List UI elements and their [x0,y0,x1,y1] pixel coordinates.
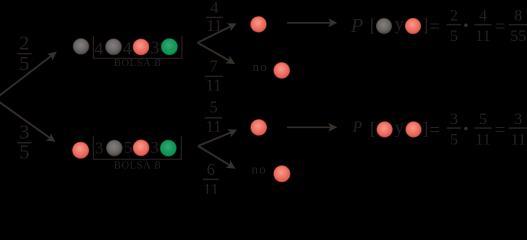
wire: top subtree branch to no-red outcome [198,43,231,61]
svg-text:11: 11 [203,180,219,194]
wire: top subtree branch to red outcome [198,26,232,43]
svg-text:5: 5 [450,131,458,148]
fraction 7/11 (top subtree) [205,57,223,95]
svg-text:7: 7 [209,57,217,76]
svg-text:y: y [395,14,404,34]
svg-text:4: 4 [94,38,103,58]
svg-text:=: = [495,16,506,37]
red ball in top formula [405,18,421,34]
bracket box bag B (bottom) [93,136,181,159]
svg-text:11: 11 [511,131,526,148]
multiplication dot (bottom formula) [464,127,467,130]
svg-text:8: 8 [514,7,522,24]
svg-text:3: 3 [150,138,158,157]
svg-text:6: 6 [207,160,215,179]
svg-text:11: 11 [206,117,222,136]
svg-text:[: [ [370,15,376,35]
svg-text:55: 55 [510,28,526,45]
svg-text:BOLSA B: BOLSA B [114,161,161,172]
svg-text:5: 5 [19,142,29,164]
svg-text:=: = [429,16,440,37]
red ball in bottom bag [133,140,149,156]
red ball after no (top subtree) [274,62,290,78]
fraction 4/11 (top subtree) [206,0,223,35]
formula P[red y red] = 3/5 . 5/11 = 3/11 [352,118,376,138]
svg-text:5: 5 [19,53,29,75]
bracket box bag B (top) [93,36,181,58]
red ball after no (bottom subtree) [274,166,290,182]
wire: bottom horizontal arrow to formula [287,126,331,128]
green ball in bottom bag [160,140,176,156]
svg-text:11: 11 [206,76,222,95]
svg-text:BOLSA B: BOLSA B [114,58,161,69]
fraction 6/11 (bottom subtree) [203,160,219,199]
svg-text:11: 11 [475,28,490,45]
formula P[gray y red] = 2/5 . 4/11 = 8/55 [350,15,376,37]
red ball 2 in bottom formula [406,122,422,138]
svg-text:]: ] [423,118,429,138]
gray ball drawn first (top) [73,38,89,54]
red ball drawn first (bottom) [72,142,88,158]
svg-text:4: 4 [123,38,132,58]
green ball in top bag [161,39,177,55]
svg-text:=: = [429,120,440,141]
svg-text:4: 4 [479,7,487,24]
svg-text:2: 2 [450,7,458,24]
svg-text:y: y [395,117,404,137]
wire: bottom subtree branch to red outcome [198,132,232,146]
fraction 3/5 (root bottom branch) [17,122,31,164]
svg-text:3: 3 [19,122,29,144]
svg-text:5: 5 [209,98,217,117]
wire: root branch up to bag with gray ball [0,55,52,99]
svg-text:5: 5 [479,111,487,128]
svg-text:=: = [495,120,506,141]
svg-text:11: 11 [206,16,222,35]
svg-text:2: 2 [19,33,29,55]
fraction 5/11 (bottom subtree) [205,98,223,136]
svg-text:3: 3 [150,38,159,58]
svg-text:5: 5 [124,138,132,157]
svg-text:[: [ [370,118,376,138]
svg-text:3: 3 [450,111,458,128]
svg-text:]: ] [423,15,429,35]
multiplication dot (top formula) [464,24,467,27]
fraction 2/5 (root top branch) [17,33,31,76]
svg-text:3: 3 [95,138,103,157]
wire: root branch down to bag with red ball [0,99,51,138]
gray ball in top formula [376,18,392,34]
red ball 1 in bottom formula [377,122,393,138]
wire: bottom subtree branch to no-red outcome [198,146,230,166]
svg-text:no: no [253,59,268,74]
svg-text:11: 11 [475,131,490,148]
wire: top horizontal arrow to formula [287,22,331,24]
gray ball in top bag [105,39,121,55]
svg-text:5: 5 [450,28,458,45]
red ball outcome (top subtree) [251,16,267,32]
svg-text:P: P [350,15,363,37]
red ball outcome (bottom subtree) [251,119,267,135]
svg-text:3: 3 [514,111,522,128]
svg-text:P: P [352,119,363,136]
svg-text:no: no [252,162,267,177]
red ball in top bag [133,39,149,55]
gray ball in bottom bag [106,140,122,156]
svg-text:4: 4 [210,0,218,17]
